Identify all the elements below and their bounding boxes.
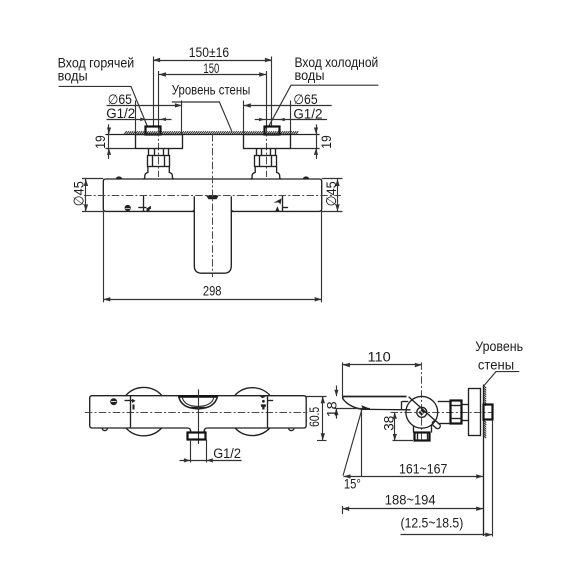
wall line (top view) [105, 134, 319, 136]
dimension 298 [103, 211, 321, 302]
svg-text:150±16: 150±16 [189, 45, 229, 61]
dimension 150±16 [153, 45, 272, 126]
svg-text:∅45: ∅45 [324, 181, 340, 206]
drain bump left (front view) [102, 428, 107, 431]
body screw bump left (top view) [116, 176, 122, 179]
wall flange (side view) [469, 389, 481, 436]
dia65 extension lines [136, 101, 291, 135]
indicator left (top view) [138, 196, 151, 212]
svg-text:18: 18 [324, 401, 340, 417]
neck below knob (side view) [414, 425, 432, 433]
spout (side view) [343, 396, 411, 409]
body centerline (front view) [85, 412, 308, 414]
wall hatch (side view) [483, 386, 486, 439]
pipe centerline left [158, 129, 160, 177]
pipe centerline right [266, 129, 268, 177]
fitting G1/2 right (eccentric box) [265, 127, 280, 135]
label G1/2 left [106, 106, 171, 121]
svg-text:298: 298 [203, 283, 222, 299]
outlet collar (front view) [188, 433, 206, 440]
dimension 19 left [93, 124, 135, 159]
G1/2 extension lines (front view) [180, 439, 242, 462]
svg-text:19: 19 [319, 135, 335, 149]
svg-text:воды: воды [58, 68, 88, 83]
escutcheon left (top view) [136, 135, 183, 149]
knob right (front view) [235, 388, 271, 436]
body (front view) [90, 396, 307, 433]
lever (side view) [409, 397, 442, 430]
svg-text:60.5: 60.5 [307, 407, 323, 427]
svg-text:Уровень стены: Уровень стены [172, 83, 251, 98]
adapter (side view) [438, 401, 451, 423]
svg-text:∅45: ∅45 [71, 181, 87, 206]
svg-text:110: 110 [368, 350, 391, 366]
dimension 19 right [291, 124, 335, 159]
label hot water inlet [58, 56, 147, 126]
dimension (12.5~18.5) (side view) [401, 516, 493, 537]
fitting extension line (side view) [492, 420, 494, 537]
label dia65 right [244, 92, 332, 108]
dimension 38 (side view) [382, 412, 413, 440]
pipe to wall (side view) [462, 405, 469, 421]
hex nut (side view) [451, 401, 463, 424]
dimension 188~194 (side view) [342, 493, 483, 514]
escutcheon right (top view) [244, 135, 291, 149]
dimension 110 [343, 350, 422, 399]
wall fitting (side view) [484, 405, 493, 420]
spout outlet mark (top view) [206, 195, 219, 199]
indicator left (front view) [125, 396, 136, 428]
body screw bump right (top view) [303, 176, 309, 179]
svg-text:G1/2: G1/2 [213, 446, 241, 461]
label wall level (side view) [475, 339, 523, 386]
drain bump right (front view) [289, 428, 294, 431]
knob circle (side view) [406, 396, 438, 428]
svg-text:воды: воды [295, 68, 325, 83]
svg-text:(12.5~18.5): (12.5~18.5) [401, 516, 464, 532]
knob axis centerline (side view) [421, 362, 423, 441]
svg-text:15°: 15° [344, 477, 361, 493]
knob hub (side view) [417, 407, 427, 417]
knob left (front view) [126, 387, 162, 435]
nut assembly right [250, 148, 281, 179]
center axis (front view) [198, 389, 200, 444]
dimension dia45 right [324, 179, 340, 211]
label cold water inlet [269, 55, 378, 126]
fitting G1/2 left (eccentric box) [146, 127, 161, 135]
svg-text:∅65: ∅65 [293, 92, 317, 107]
wall hatch (top view) [124, 131, 298, 134]
angle 15 deg lines (side view) [343, 405, 370, 493]
spout dish (front view) [179, 396, 218, 409]
label dia65 left [107, 92, 182, 107]
dimension 60.5 [306, 396, 326, 440]
horizontal centerline (side view) [391, 412, 494, 414]
screw left (front view) [110, 398, 117, 405]
svg-text:19: 19 [93, 135, 109, 149]
indicator right (top view) [274, 196, 289, 211]
main body (top view) [82, 179, 343, 212]
label G1/2 right [255, 106, 327, 121]
body centerline horizontal (top view) [84, 195, 341, 197]
svg-text:стены: стены [478, 358, 514, 373]
dimension 18 (side view) [324, 386, 370, 419]
dimension 161~167 (side view) [344, 461, 484, 478]
centerline vertical (top view) [212, 134, 214, 277]
svg-text:161~167: 161~167 [399, 461, 447, 477]
dimension 150 [159, 61, 267, 129]
svg-text:38: 38 [382, 416, 398, 431]
label wall level (top view) [172, 83, 251, 132]
screw left (top view) [125, 205, 131, 211]
nut assembly left [143, 148, 174, 179]
outlet neck (front view) [191, 430, 205, 432]
svg-text:188~194: 188~194 [385, 493, 436, 509]
svg-text:Уровень: Уровень [475, 339, 523, 354]
indicator right (front view) [259, 396, 273, 428]
spout (top view) [194, 196, 231, 273]
wall line (side view) [483, 385, 485, 537]
dimension dia45 left [71, 179, 88, 211]
outlet collar (side view) [415, 433, 430, 441]
